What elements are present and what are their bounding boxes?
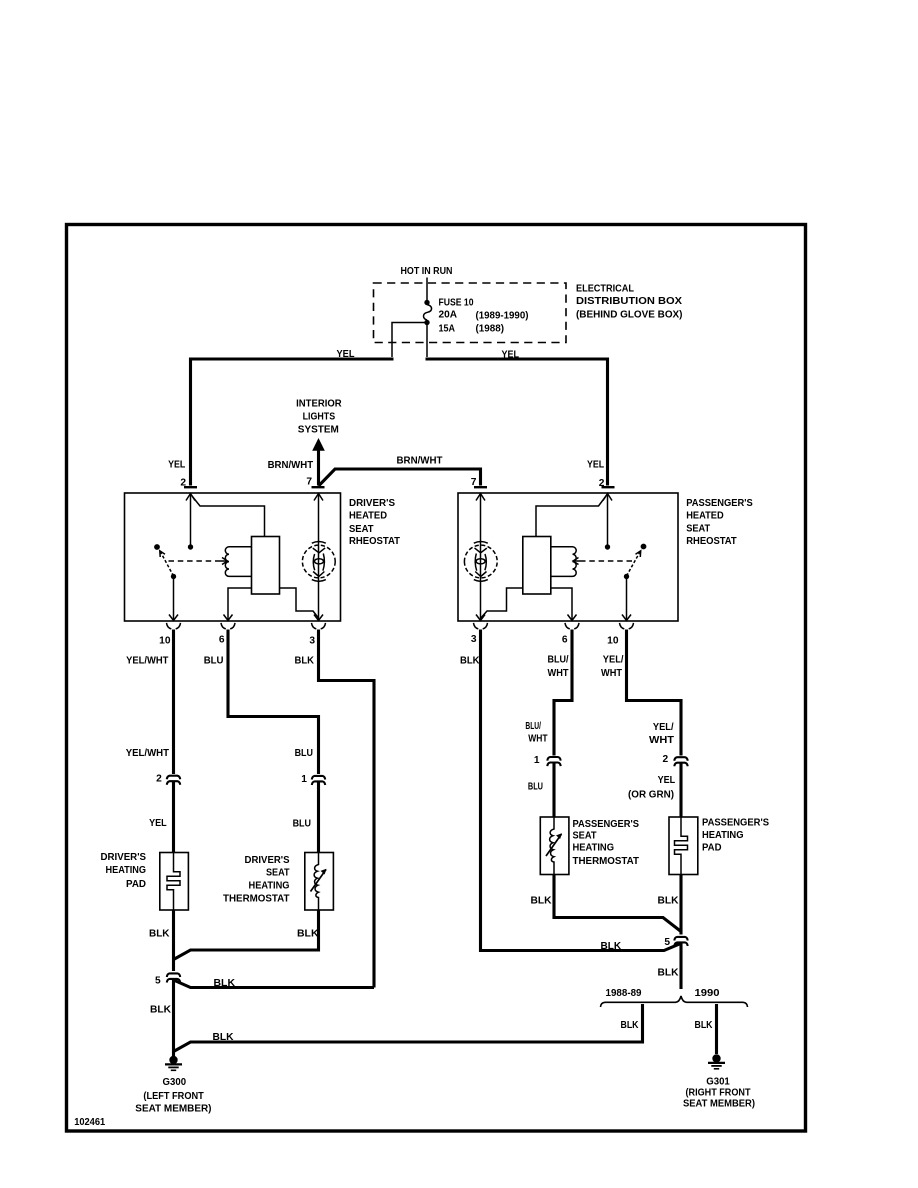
inline connector 1 passenger: [547, 757, 560, 766]
switch pivot dot passenger: [641, 544, 647, 550]
fuse F10: [424, 300, 429, 305]
wire BLK thermostat branch joining: [174, 910, 319, 960]
svg-text:SYSTEM: SYSTEM: [298, 425, 339, 436]
svg-text:1988-89: 1988-89: [606, 988, 642, 999]
node switch contact dot: [188, 544, 193, 549]
wire BLK pad down: [172, 910, 175, 971]
pin 2 driver arrow: [186, 494, 195, 501]
wire block to lamp leg passenger: [481, 588, 523, 618]
driver's heating pad box: [160, 853, 189, 911]
heating element passenger pad: [675, 817, 688, 875]
svg-text:DRIVER'S: DRIVER'S: [101, 852, 147, 863]
svg-text:YEL: YEL: [502, 350, 520, 361]
svg-text:3: 3: [471, 634, 477, 645]
connector wings pin 6: [221, 623, 235, 629]
svg-text:BLK: BLK: [213, 1032, 235, 1043]
svg-text:10: 10: [607, 636, 619, 647]
svg-text:PASSENGER'S: PASSENGER'S: [686, 498, 753, 509]
wire switch to pin 10 passenger: [626, 577, 628, 621]
thermostat element driver: [311, 853, 327, 911]
border frame: [67, 225, 806, 1132]
wire YEL/WHT driver pin 10 down: [172, 630, 175, 775]
driver's heated seat rheostat box: [125, 493, 341, 621]
svg-text:BLK: BLK: [601, 941, 622, 952]
svg-text:(LEFT FRONT: (LEFT FRONT: [143, 1091, 204, 1102]
svg-text:LIGHTS: LIGHTS: [303, 412, 336, 423]
svg-text:(BEHIND GLOVE BOX): (BEHIND GLOVE BOX): [576, 310, 683, 321]
svg-text:1: 1: [534, 755, 540, 766]
svg-text:102461: 102461: [74, 1117, 105, 1128]
passenger's heating pad box: [669, 817, 698, 875]
svg-text:BLU: BLU: [204, 656, 224, 667]
coil passenger: [573, 547, 577, 577]
svg-text:BLK: BLK: [214, 978, 236, 989]
svg-text:THERMOSTAT: THERMOSTAT: [223, 894, 290, 905]
passenger's heated seat rheostat box: [458, 493, 678, 621]
svg-text:15A: 15A: [439, 324, 456, 335]
inline connector 1 driver: [312, 776, 325, 785]
svg-text:HEATED: HEATED: [686, 511, 724, 522]
wire block to lamp leg: [280, 588, 319, 618]
svg-text:YEL: YEL: [337, 349, 355, 360]
svg-text:20A: 20A: [439, 310, 458, 321]
wire BLU driver pin 6 down: [228, 630, 319, 775]
switch arm driver: [160, 551, 174, 576]
svg-text:HEATED: HEATED: [349, 511, 387, 522]
wire BLK long bottom run joining: [174, 1004, 643, 1052]
wire BLK driver pin 3 long return: [319, 630, 375, 988]
connector wings pin 10 passenger: [620, 623, 634, 629]
ground G301: [708, 1054, 725, 1069]
svg-text:PAD: PAD: [702, 843, 722, 854]
inline connector 2 passenger: [674, 757, 687, 766]
wire fuse output jog left: [392, 323, 427, 358]
pin 7 driver arrow: [314, 494, 323, 501]
svg-text:10: 10: [159, 636, 171, 647]
svg-text:RHEOSTAT: RHEOSTAT: [686, 536, 737, 547]
wire YEL to driver rheostat pin 2: [191, 359, 394, 486]
heating element driver pad: [167, 853, 180, 911]
svg-text:BLK: BLK: [460, 656, 480, 667]
wire YEL to heating pad: [172, 782, 175, 853]
svg-text:2: 2: [663, 754, 669, 765]
wire BLK passenger thermostat joining pad wire: [554, 875, 681, 932]
svg-text:PASSENGER'S: PASSENGER'S: [573, 819, 640, 830]
wire pin2 to switch contact: [190, 494, 192, 545]
svg-text:BLK: BLK: [695, 1020, 714, 1031]
electrical distribution box (dashed): [374, 283, 567, 343]
wire BLK passenger pin 3 return: [481, 630, 682, 951]
svg-text:BLU/: BLU/: [525, 721, 541, 732]
svg-text:WHT: WHT: [528, 734, 548, 745]
svg-text:HEATING: HEATING: [702, 830, 744, 841]
svg-text:PAD: PAD: [126, 879, 146, 890]
svg-text:YEL/: YEL/: [603, 655, 624, 666]
wire pin2 stub to resistor block: [192, 496, 265, 537]
svg-text:BLU: BLU: [293, 819, 311, 830]
svg-text:INTERIOR: INTERIOR: [296, 399, 342, 410]
wire BRN/WHT to interior lights: [317, 450, 320, 486]
pin 2 passenger arrow: [603, 494, 612, 501]
wire fuse output down: [426, 323, 428, 358]
switch bottom dot driver: [171, 574, 176, 579]
svg-text:1: 1: [301, 774, 307, 785]
svg-text:BLK: BLK: [621, 1020, 640, 1031]
resistor block passenger: [523, 537, 551, 595]
pin 3 passenger arrow: [476, 615, 485, 621]
svg-text:SEAT MEMBER): SEAT MEMBER): [683, 1099, 755, 1110]
wire switch to pin 10: [173, 577, 175, 621]
svg-text:SEAT MEMBER): SEAT MEMBER): [135, 1104, 211, 1115]
svg-text:WHT: WHT: [548, 668, 570, 679]
passenger's seat heating thermostat box: [540, 817, 569, 875]
wire block to pin 6: [228, 588, 252, 621]
svg-text:BLK: BLK: [531, 896, 553, 907]
svg-text:YEL/WHT: YEL/WHT: [126, 748, 170, 759]
wire BRN/WHT crossover to passenger pin 7: [319, 469, 481, 486]
wire BLU to seat thermostat: [317, 782, 320, 852]
year split bracket: [601, 996, 748, 1007]
svg-text:BLK: BLK: [150, 1005, 172, 1016]
wire BLK passenger return joining: [174, 980, 375, 988]
dashed actuator link driver: [169, 560, 220, 562]
svg-text:BLK: BLK: [297, 929, 319, 940]
svg-text:HEATING: HEATING: [573, 843, 615, 854]
wire BLU to passenger thermostat: [552, 763, 555, 817]
svg-text:G301: G301: [706, 1077, 730, 1088]
svg-text:(1988): (1988): [476, 324, 505, 335]
wire pin7 through lamp to pin3: [318, 494, 320, 621]
switch pivot dot driver: [154, 544, 160, 550]
svg-text:YEL: YEL: [658, 775, 676, 786]
svg-text:SEAT: SEAT: [573, 831, 598, 842]
svg-text:BLK: BLK: [658, 968, 680, 979]
wire YEL to passenger heating pad: [679, 764, 682, 818]
svg-text:SEAT: SEAT: [686, 524, 711, 535]
svg-text:BLU: BLU: [295, 748, 313, 759]
svg-text:7: 7: [306, 477, 312, 488]
wire BLK pad down to connector 5: [679, 875, 682, 935]
svg-text:YEL: YEL: [149, 818, 167, 829]
svg-text:(OR GRN): (OR GRN): [628, 790, 674, 801]
inline connector 2 driver: [167, 776, 180, 785]
svg-text:3: 3: [309, 636, 315, 647]
svg-text:DRIVER'S: DRIVER'S: [349, 498, 395, 509]
svg-text:PASSENGER'S: PASSENGER'S: [702, 818, 769, 829]
switch bottom dot passenger: [624, 574, 629, 579]
wire pin2 to switch contact passenger: [607, 494, 609, 545]
svg-text:YEL/WHT: YEL/WHT: [126, 655, 169, 666]
wire YEL/WHT passenger pin 10 down: [627, 630, 682, 756]
svg-text:DISTRIBUTION BOX: DISTRIBUTION BOX: [576, 296, 682, 307]
svg-text:BLU: BLU: [528, 782, 543, 793]
svg-text:YEL/: YEL/: [653, 722, 674, 733]
svg-text:BLK: BLK: [658, 896, 680, 907]
wire block to pin 6 passenger: [551, 588, 572, 621]
svg-text:DRIVER'S: DRIVER'S: [245, 855, 290, 866]
svg-text:YEL: YEL: [168, 460, 185, 471]
switch arm passenger: [627, 551, 641, 576]
wire pin2 stub to resistor block passenger: [536, 496, 606, 537]
wire BLK to ground G300: [172, 980, 175, 1056]
wire BLK 1990 branch to ground G301: [715, 1004, 718, 1054]
svg-text:1990: 1990: [695, 988, 720, 999]
coil driver: [225, 547, 229, 577]
svg-text:HEATING: HEATING: [249, 881, 290, 892]
driver's seat heating thermostat box: [305, 853, 334, 911]
svg-text:WHT: WHT: [649, 735, 675, 746]
svg-text:6: 6: [219, 635, 225, 646]
wire BLU/WHT passenger pin 6 down: [554, 630, 572, 756]
svg-text:BLK: BLK: [295, 656, 315, 667]
connector wings pin 3 passenger: [474, 623, 488, 629]
wire hot-in-run feed to fuse: [426, 278, 428, 303]
svg-text:HEATING: HEATING: [106, 865, 147, 876]
pin 3 driver arrow: [314, 615, 323, 621]
svg-text:2: 2: [156, 774, 162, 785]
svg-text:5: 5: [155, 976, 161, 987]
svg-text:HOT IN RUN: HOT IN RUN: [401, 266, 453, 277]
svg-text:RHEOSTAT: RHEOSTAT: [349, 536, 401, 547]
resistor block driver: [252, 537, 280, 595]
svg-text:(1989-1990): (1989-1990): [476, 311, 529, 322]
svg-text:FUSE 10: FUSE 10: [439, 298, 474, 309]
svg-text:YEL: YEL: [587, 460, 604, 471]
ground G300: [165, 1056, 182, 1071]
svg-text:WHT: WHT: [601, 668, 623, 679]
svg-text:5: 5: [664, 937, 670, 948]
connector wings pin 6 passenger: [565, 623, 579, 629]
svg-text:THERMOSTAT: THERMOSTAT: [573, 856, 640, 867]
node switch contact dot passenger: [605, 544, 610, 549]
svg-text:SEAT: SEAT: [266, 868, 290, 879]
svg-text:BLK: BLK: [149, 929, 170, 940]
svg-text:6: 6: [562, 635, 568, 646]
svg-text:G300: G300: [163, 1077, 187, 1088]
svg-text:BRN/WHT: BRN/WHT: [268, 460, 314, 471]
svg-text:ELECTRICAL: ELECTRICAL: [576, 284, 634, 295]
wire YEL to passenger rheostat pin 2: [426, 359, 608, 486]
pin 7 passenger arrow: [476, 494, 485, 501]
inline connector 5 passenger: [674, 937, 687, 946]
svg-text:BLU/: BLU/: [548, 655, 569, 666]
connector wings pin 3: [312, 623, 326, 629]
svg-text:SEAT: SEAT: [349, 524, 374, 535]
wire pin7 through lamp to pin3 passenger: [480, 494, 482, 621]
arrow to interior lights system: [312, 438, 325, 451]
thermostat element passenger: [546, 817, 562, 875]
inline connector 5 driver: [167, 973, 180, 982]
wire BLK below connector 5: [679, 943, 682, 989]
svg-text:(RIGHT FRONT: (RIGHT FRONT: [686, 1088, 752, 1099]
svg-text:BRN/WHT: BRN/WHT: [397, 456, 444, 467]
dashed actuator link passenger: [582, 560, 633, 562]
indicator lamp passenger: [464, 541, 497, 581]
indicator lamp driver: [302, 541, 335, 581]
connector wings pin 10: [167, 623, 181, 629]
